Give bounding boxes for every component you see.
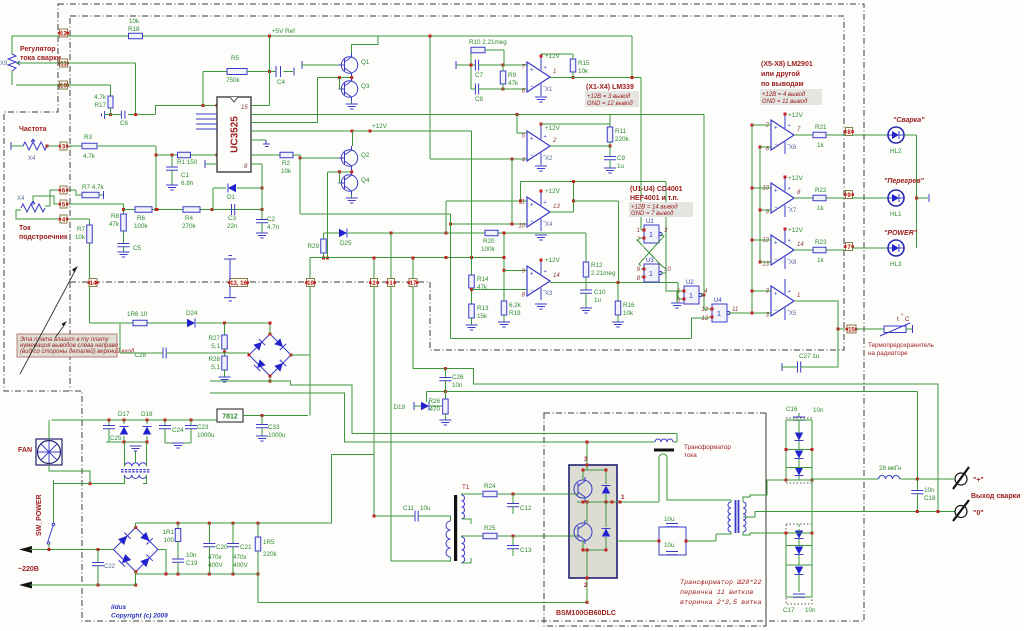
potentiometer X4 current <box>21 204 45 212</box>
svg-text:+: + <box>788 238 791 244</box>
svg-text:1k: 1k <box>817 142 825 149</box>
svg-text:3: 3 <box>584 456 588 463</box>
wire y258 bus <box>310 258 504 283</box>
svg-text:10k: 10k <box>623 310 634 317</box>
svg-text:−: − <box>774 205 778 211</box>
wire bridge right <box>291 282 310 355</box>
LED HL2 <box>888 127 904 143</box>
svg-text:47k: 47k <box>508 80 519 87</box>
svg-text:C1: C1 <box>181 172 190 179</box>
svg-text:4.7k: 4.7k <box>94 94 107 101</box>
svg-text:(X1-X4) LM339: (X1-X4) LM339 <box>586 84 634 91</box>
op-amp X6 <box>771 120 794 150</box>
svg-text:GND = 7 вывод: GND = 7 вывод <box>631 211 674 217</box>
svg-text:15: 15 <box>848 328 855 334</box>
wire X4 out <box>550 211 574 213</box>
svg-text:R25: R25 <box>484 525 496 532</box>
resistor R3 4.7k <box>82 143 97 149</box>
svg-text:1k: 1k <box>817 257 825 264</box>
capacitor C2 4.7n <box>261 164 263 219</box>
fan <box>36 439 62 465</box>
resistor R4 270k <box>183 207 200 213</box>
capacitor C23 1000u <box>190 420 192 425</box>
wire +12V rail <box>251 130 472 132</box>
svg-text:"Сварка": "Сварка" <box>893 117 925 124</box>
pin box 15 <box>847 325 856 333</box>
wire X2 plus loop <box>517 115 527 134</box>
svg-text:1R1: 1R1 <box>162 529 174 536</box>
svg-text:1u: 1u <box>617 163 625 170</box>
svg-text:подстроечник: подстроечник <box>19 234 68 241</box>
svg-text:R24: R24 <box>484 483 496 490</box>
wire X2 out <box>550 145 610 147</box>
transformer T1 core <box>454 495 457 561</box>
capacitor C9 1u <box>609 146 611 156</box>
svg-text:2: 2 <box>552 138 557 144</box>
X6 +12V <box>784 113 787 116</box>
pin box 13 16 <box>230 279 248 287</box>
Q1 base terminal <box>301 61 303 69</box>
wire mod row <box>324 232 340 234</box>
svg-text:C18: C18 <box>924 495 936 502</box>
transistor Q3 <box>341 81 357 97</box>
svg-text:13, 16: 13, 16 <box>230 281 247 287</box>
svg-text:Выход сварки: Выход сварки <box>971 493 1020 500</box>
diode D18 <box>146 420 148 424</box>
svg-text:X8: X8 <box>789 260 797 266</box>
svg-text:C19: C19 <box>186 560 198 567</box>
svg-text:10u: 10u <box>664 516 675 523</box>
diode D25 <box>339 229 347 237</box>
op-amp X3 <box>527 266 550 296</box>
svg-text:+12В = 14 вывод: +12В = 14 вывод <box>631 205 678 211</box>
IC UC3525 <box>217 97 251 172</box>
wire X5 in <box>752 290 771 292</box>
wire 1R6 row <box>90 322 134 324</box>
svg-text:Трансформатор: Трансформатор <box>684 444 731 451</box>
svg-text:C8: C8 <box>475 96 484 103</box>
svg-text:1: 1 <box>797 293 800 299</box>
T1 secondary lower <box>462 537 465 563</box>
module diode 2 <box>602 529 610 537</box>
feedback loop R10 <box>470 50 472 89</box>
svg-text:U3: U3 <box>646 258 654 264</box>
module pin 3 <box>586 442 588 465</box>
capacitor C18 10n <box>916 479 918 490</box>
wire X7 in <box>752 187 771 189</box>
pin box 6 <box>60 186 67 194</box>
svg-text:"+": "+" <box>973 477 984 484</box>
lower diode stack box <box>786 524 812 604</box>
svg-text:10: 10 <box>518 224 525 230</box>
wire output sense zero <box>445 369 938 512</box>
wire X7 out <box>794 197 813 199</box>
svg-text:HL3: HL3 <box>890 261 902 268</box>
svg-text:(вид со стороны деталей) верхн: (вид со стороны деталей) верхний вход <box>20 348 135 355</box>
wire x512 column <box>511 159 513 224</box>
svg-text:или другой: или другой <box>761 70 800 78</box>
resistor R1 150 <box>178 152 191 158</box>
svg-text:C12: C12 <box>520 505 532 512</box>
wire Q pair2 out <box>326 172 328 258</box>
resistor R21 1k <box>813 132 826 138</box>
svg-text:10k: 10k <box>75 234 86 241</box>
svg-text:"Перегрев": "Перегрев" <box>884 178 925 185</box>
svg-text:Q4: Q4 <box>361 177 370 184</box>
wire U2 inputs <box>671 303 683 308</box>
svg-text:22n: 22n <box>227 223 238 230</box>
wire to HL2 <box>852 134 888 136</box>
svg-text:1000u: 1000u <box>268 432 286 439</box>
svg-text:+: + <box>774 126 778 132</box>
lower stack rails <box>785 533 787 597</box>
diode D17 <box>123 420 125 424</box>
upper stack diodes <box>795 433 803 441</box>
X4 gnd <box>535 235 547 240</box>
svg-text:15: 15 <box>241 105 248 111</box>
capacitor C26 10n <box>444 369 446 378</box>
capacitor C3 22n <box>232 204 235 215</box>
svg-text:6,2k: 6,2k <box>509 302 522 309</box>
svg-text:+: + <box>530 203 534 209</box>
svg-text:C28: C28 <box>134 352 146 359</box>
UC3525 open stub <box>205 163 217 165</box>
wire fan bottom <box>49 465 124 484</box>
svg-text:1000u: 1000u <box>197 432 215 439</box>
svg-text:D25: D25 <box>340 240 352 247</box>
wire aux top rail <box>52 419 218 421</box>
svg-text:X9: X9 <box>0 61 8 67</box>
svg-text:C23: C23 <box>197 424 209 431</box>
wire R1 <box>156 154 217 156</box>
module mid node <box>577 501 617 503</box>
wire pin2 col <box>373 258 375 279</box>
resistor R12 2.21meg <box>585 233 587 262</box>
svg-text:400V: 400V <box>208 562 224 569</box>
module pin 2 <box>586 578 588 602</box>
svg-text:12: 12 <box>701 307 708 313</box>
LED HL1 <box>888 190 904 206</box>
svg-text:вторичка 2*3,5 витка: вторичка 2*3,5 витка <box>680 599 762 607</box>
resistor 1R1 100 <box>177 523 179 528</box>
svg-text:C9: C9 <box>617 155 626 162</box>
svg-text:тока: тока <box>684 452 697 459</box>
svg-text:R7: R7 <box>77 226 86 233</box>
lower stack diodes <box>795 531 803 539</box>
svg-text:−: − <box>774 257 778 263</box>
svg-text:+12В = 3 вывод: +12В = 3 вывод <box>587 94 631 100</box>
capacitor C16 10n <box>798 413 800 417</box>
svg-text:C25: C25 <box>110 435 122 442</box>
wire U3 out <box>661 273 682 291</box>
aux transformer secondary wires <box>143 475 147 484</box>
resistor 1R5 220k <box>257 523 259 537</box>
svg-text:X4: X4 <box>17 196 25 202</box>
svg-text:Q3: Q3 <box>361 83 370 90</box>
output inductor 28uH <box>812 478 878 480</box>
svg-text:Q2: Q2 <box>361 152 370 159</box>
resistor R6 100k <box>135 207 152 213</box>
svg-text:"0": "0" <box>973 510 984 517</box>
svg-text:10k: 10k <box>281 168 292 175</box>
UC3525 nc stubs <box>196 114 217 129</box>
svg-text:14: 14 <box>553 273 560 279</box>
IGBT module box <box>569 465 617 578</box>
note arrow short <box>55 324 65 338</box>
svg-text:100k: 100k <box>481 246 496 253</box>
svg-text:C20: C20 <box>216 544 228 551</box>
svg-text:C5: C5 <box>133 245 142 252</box>
X1 +12V <box>540 55 542 56</box>
wire X3 minus <box>472 289 528 291</box>
svg-text:10n: 10n <box>805 607 816 614</box>
svg-text:T1: T1 <box>462 484 470 491</box>
resistor R29 <box>321 239 327 253</box>
resistor R18 <box>129 33 143 39</box>
diode D1 <box>212 188 214 210</box>
wire aux gnd rail <box>165 442 191 444</box>
capacitor C28 <box>120 352 163 354</box>
wire switch feed <box>53 484 90 523</box>
svg-text:+12V: +12V <box>788 227 804 234</box>
output terminal plus <box>955 473 967 485</box>
svg-text:C21: C21 <box>240 544 252 551</box>
diode D19 <box>413 402 415 410</box>
svg-text:10u: 10u <box>420 505 431 512</box>
wire Q3 emitter gnd <box>351 101 353 104</box>
wire R3 <box>47 145 58 147</box>
pin box 10b <box>307 279 315 287</box>
svg-text:R10 2.21meg: R10 2.21meg <box>469 39 507 46</box>
svg-text:R4: R4 <box>185 215 194 222</box>
svg-text:t: t <box>897 316 899 323</box>
resistor R16 10k <box>617 283 619 302</box>
svg-text:R3: R3 <box>84 134 93 141</box>
gate U1 <box>644 225 659 243</box>
wire pin4 to R7b <box>69 218 90 220</box>
wire bridge bottom <box>269 377 271 382</box>
wire AC line1 <box>30 549 114 551</box>
X2 gnd <box>535 166 547 171</box>
pin box 10 <box>60 81 68 89</box>
capacitor C25 <box>108 420 110 425</box>
svg-text:R2: R2 <box>282 160 291 167</box>
svg-text:10n: 10n <box>924 487 935 494</box>
svg-text:BSM100GB60DLC: BSM100GB60DLC <box>556 610 616 617</box>
drive bridge rectifier <box>249 334 291 376</box>
switch SW_POWER <box>52 480 54 523</box>
svg-text:X1: X1 <box>545 87 553 93</box>
svg-text:C13: C13 <box>520 547 532 554</box>
current transformer <box>655 439 673 442</box>
resistor R25 <box>471 535 483 537</box>
op-amp X1 <box>527 62 550 92</box>
wire X6 in <box>752 124 771 126</box>
svg-text:Трансформатор Ш20*22: Трансформатор Ш20*22 <box>680 579 762 587</box>
svg-text:D19: D19 <box>393 404 405 411</box>
svg-text:10: 10 <box>307 281 314 287</box>
svg-text:2.21meg: 2.21meg <box>591 270 616 277</box>
resistor 1R6 10 <box>133 320 147 326</box>
svg-text:C: C <box>905 316 910 323</box>
svg-text:C33: C33 <box>268 424 280 431</box>
svg-text:"POWER": "POWER" <box>884 230 918 237</box>
resistor R28 5.1 <box>224 349 226 356</box>
wire Q1Q3 junction <box>317 77 351 79</box>
svg-text:+: + <box>530 272 534 278</box>
svg-text:+: + <box>774 292 778 298</box>
svg-text:R18: R18 <box>128 26 140 33</box>
svg-text:+12В = 4 вывод: +12В = 4 вывод <box>762 92 806 98</box>
svg-text:6.8h: 6.8h <box>181 180 194 187</box>
wire minus to module <box>258 574 587 602</box>
svg-text:+: + <box>530 137 534 143</box>
pin box 14 <box>89 279 97 287</box>
wire X4 in11 <box>446 200 527 202</box>
capacitor C10 1u <box>580 290 592 293</box>
output rectifier section border <box>765 413 767 626</box>
note arrow long <box>20 269 76 374</box>
svg-text:+: + <box>774 189 778 195</box>
svg-text:GND = 12 вывод: GND = 12 вывод <box>587 101 633 107</box>
svg-text:1: 1 <box>689 293 693 300</box>
svg-text:1R5: 1R5 <box>263 539 275 546</box>
warning note box <box>17 334 117 357</box>
resistor R13 15k <box>471 288 473 304</box>
X4 +12V <box>540 190 542 191</box>
svg-text:C7: C7 <box>475 72 484 79</box>
wire U2 out <box>701 294 704 296</box>
wire output sense plus <box>426 391 917 393</box>
resistor R5 750k <box>202 72 204 106</box>
svg-text:1: 1 <box>717 311 721 318</box>
svg-text:220k: 220k <box>615 136 630 143</box>
svg-text:−: − <box>530 84 534 90</box>
wire lower stack up <box>811 480 813 533</box>
svg-text:R17: R17 <box>94 102 106 109</box>
wire R3 node column <box>155 146 157 210</box>
svg-text:R11: R11 <box>615 128 627 135</box>
wire Q4 emitter gnd <box>351 195 353 198</box>
wire aux mid rail <box>106 441 147 443</box>
module top node <box>583 469 606 471</box>
wire osc rail <box>124 209 263 211</box>
svg-text:1: 1 <box>649 232 653 239</box>
svg-text:400V: 400V <box>233 562 249 569</box>
svg-text:C10: C10 <box>594 289 606 296</box>
svg-text:100k: 100k <box>134 223 149 230</box>
wire R2 node down <box>299 158 301 214</box>
svg-text:C22: C22 <box>104 564 116 570</box>
svg-text:1k: 1k <box>817 205 825 212</box>
svg-text:HL1: HL1 <box>890 211 902 218</box>
wire X3 plus <box>503 233 505 301</box>
resistor R22 1k <box>813 195 826 201</box>
capacitor C7 <box>475 60 478 71</box>
svg-text:C6: C6 <box>120 120 129 127</box>
pin box 12 <box>60 29 68 37</box>
main bridge rectifier <box>114 528 158 572</box>
pin box 7b <box>846 243 853 251</box>
svg-text:+: + <box>530 68 534 74</box>
svg-text:SW_POWER: SW_POWER <box>36 494 43 536</box>
wire C6 to UC3525 <box>156 106 217 115</box>
wire bridge2 bottom <box>135 572 137 585</box>
wire UC pin to X2 <box>251 114 704 116</box>
wire drive rail A <box>210 381 677 434</box>
svg-text:тока сварки: тока сварки <box>20 55 61 62</box>
wire pin10 <box>16 84 111 86</box>
svg-text:Регулятор: Регулятор <box>20 46 56 53</box>
svg-text:HL2: HL2 <box>890 148 902 155</box>
svg-text:+5V Ref: +5V Ref <box>272 28 295 35</box>
resistor R20 100k <box>485 230 498 236</box>
svg-text:Copyright (c) 2009: Copyright (c) 2009 <box>111 613 168 620</box>
svg-text:R12: R12 <box>591 262 603 269</box>
svg-text:15k: 15k <box>477 313 488 320</box>
gate U3 <box>644 264 659 282</box>
svg-text:13: 13 <box>553 204 560 210</box>
svg-text:−: − <box>530 219 534 225</box>
AC arrow 1 <box>24 549 34 551</box>
UC pin stub cap <box>251 139 266 141</box>
svg-text:(X5-X8) LM2901: (X5-X8) LM2901 <box>761 61 813 68</box>
svg-text:C24: C24 <box>172 427 184 434</box>
svg-text:Термопредохранитель: Термопредохранитель <box>868 342 935 349</box>
wire UC pin8 <box>251 163 262 165</box>
IC 7812 <box>217 409 243 422</box>
svg-text:C11: C11 <box>403 505 415 512</box>
svg-text:R20: R20 <box>483 238 495 245</box>
svg-text:Ток: Ток <box>19 225 31 232</box>
module bottom node <box>583 549 606 551</box>
svg-text:1: 1 <box>649 271 653 278</box>
resistor R8 47k <box>121 214 127 231</box>
svg-text:47k: 47k <box>109 221 120 228</box>
IGBT 2 <box>574 523 592 541</box>
svg-text:R23: R23 <box>815 239 827 246</box>
svg-text:750k: 750k <box>226 77 241 84</box>
op-amp X5 <box>771 286 794 316</box>
svg-text:470: 470 <box>429 406 440 413</box>
wire U4 out <box>729 312 772 314</box>
svg-text:Q1: Q1 <box>361 59 370 66</box>
svg-text:−: − <box>774 142 778 148</box>
svg-text:+: + <box>774 241 778 247</box>
svg-text:10k: 10k <box>129 18 140 25</box>
svg-text:10n: 10n <box>186 552 197 559</box>
svg-text:+: + <box>788 123 791 129</box>
svg-text:R1 150: R1 150 <box>177 159 198 166</box>
svg-text:470x: 470x <box>233 554 248 561</box>
svg-text:GND = 11 вывод: GND = 11 вывод <box>762 99 808 105</box>
pin box 2 <box>371 279 378 287</box>
svg-text:28 мкГн: 28 мкГн <box>879 465 902 472</box>
wire +5Vref rail <box>12 36 129 54</box>
module pin 1 wire <box>617 501 659 503</box>
svg-text:~220В: ~220В <box>18 566 39 573</box>
wire pin17 col <box>412 259 414 279</box>
capacitor C12 <box>512 494 514 503</box>
svg-text:−: − <box>774 308 778 314</box>
resistor R9 47k <box>500 71 506 84</box>
svg-text:R16: R16 <box>623 302 635 309</box>
LED HL3 <box>888 240 904 256</box>
resistor R17 4.7k <box>110 85 112 96</box>
wire drive rail B <box>210 393 655 442</box>
node +5Vref <box>268 35 271 38</box>
X8 +12V <box>784 228 787 231</box>
